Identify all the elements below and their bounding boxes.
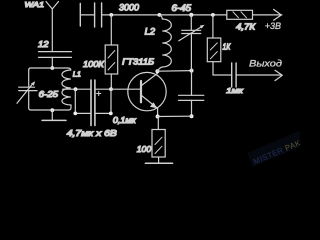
svg-text:4,7мк x 6В: 4,7мк x 6В [67,128,117,138]
node collector [155,69,159,73]
wire R100 bottom [158,157,160,163]
svg-text:0,1мк: 0,1мк [113,116,136,125]
wire tank bottom rail [31,105,71,110]
wire emitter down [157,108,159,117]
node cap block bottom-right [109,112,113,116]
inductor L1 [62,68,71,105]
variable capacitor 6-25 [17,81,37,103]
wire supply rail [102,14,227,16]
ground tank [42,119,66,121]
wire tank left branch lower [29,91,31,110]
svg-text:L2: L2 [145,26,156,36]
node rail to 1K [211,13,215,17]
resistor 4,7K [227,10,253,19]
capacitor 12 [39,52,72,68]
transistor VT1 GT311B [128,72,166,110]
node base-cap right [109,87,113,91]
svg-text:WA1: WA1 [25,0,45,9]
wire 6-45 top [190,15,192,30]
node emitter line right [190,114,194,118]
node tank bottom [50,108,54,112]
svg-text:4,7К: 4,7К [236,21,256,31]
watermark MISTER PAK [252,138,302,166]
wire supply arrow [253,14,282,16]
wire 1K bottom [213,62,232,75]
capacitor 1uk [232,63,236,87]
node rail to 100K [109,13,113,17]
svg-text:+3В: +3В [265,21,281,31]
wire emitter to feedback [158,115,192,117]
node cap block bottom-left [73,112,77,116]
resistor 100K [105,45,118,74]
wire chassis to C3000 [80,14,94,16]
svg-text:100К: 100К [83,59,105,69]
wire 100K top [110,15,112,45]
wire 1K top [212,15,214,38]
svg-text:Выход: Выход [249,58,282,68]
watermark band [247,129,310,167]
arrow output [275,70,282,80]
resistor 1K [207,38,221,62]
wire collector to feedback [157,70,191,73]
capacitor 4.7uF plate left [90,80,92,126]
wire ground stem [51,110,53,120]
wire base line left [63,88,92,90]
wire collector up [156,71,158,73]
wire cap block left vertical [74,89,76,113]
ground chassis bar top-left [79,4,81,27]
wire tank top rail [29,68,68,70]
wire cap block bottom left [75,112,91,114]
polarity plus 4.7uF [97,91,101,95]
node emitter [156,115,160,119]
arrow supply [274,9,282,20]
wire cap block right vertical [110,89,112,113]
svg-text:ГТ311Б: ГТ311Б [122,57,155,67]
wire 100K bottom [110,74,112,89]
capacitor feedback [179,95,204,100]
svg-text:12: 12 [38,40,49,49]
ground emitter [145,162,172,164]
wire output [236,74,281,76]
node rail to 6-45 [189,13,193,17]
node feedback top [190,69,194,73]
node rail to L2 [158,13,162,17]
inductor L2 [157,15,171,71]
resistor 100 [152,130,165,158]
node tank top [50,66,54,70]
antenna WA1 [46,2,59,52]
svg-text:L1: L1 [73,69,81,78]
wire 6-45 bottom [190,34,192,71]
svg-text:6-45: 6-45 [172,3,192,13]
capacitor 3000 [95,3,102,27]
wire base line mid [95,88,111,90]
wire feedback cap top [191,71,193,96]
svg-text:1К: 1К [223,42,232,51]
node base-cap left [74,87,78,91]
svg-text:100: 100 [137,144,152,154]
svg-text:3000: 3000 [119,3,139,13]
wire emitter to R100 [157,117,159,130]
wire cap block bottom right [95,112,111,114]
capacitor 4.7uF plate right [94,80,96,126]
wire tank left branch upper [28,70,30,87]
svg-text:6-25: 6-25 [39,89,59,99]
wire base line right [111,88,140,90]
wire feedback cap bottom [191,100,193,116]
variable capacitor 6-45 [179,25,205,41]
svg-text:1мк: 1мк [226,86,243,95]
